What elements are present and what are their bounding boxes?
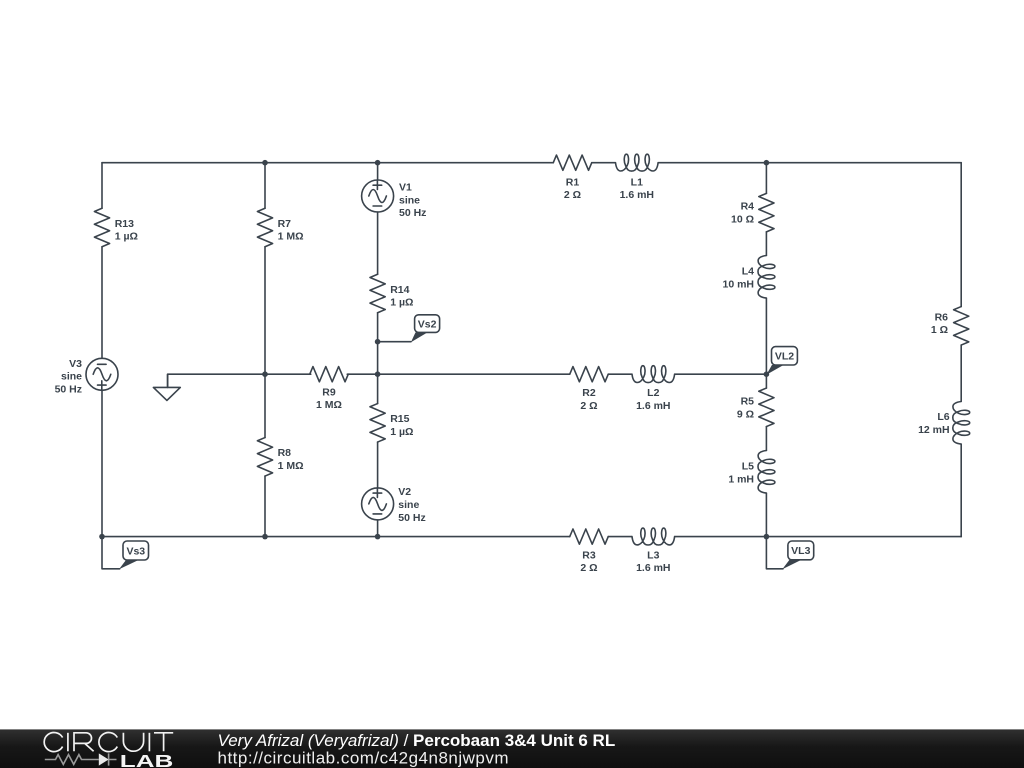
svg-text:1 µΩ: 1 µΩ	[115, 231, 138, 243]
svg-text:L6: L6	[937, 411, 949, 423]
wire left column upper (top rail to R13)	[101, 163, 103, 209]
resistor R6	[931, 307, 969, 346]
svg-text:R7: R7	[278, 218, 292, 230]
svg-text:R1: R1	[566, 176, 580, 188]
resistor R5	[737, 388, 774, 427]
wire bottom rail right (L3 to bottom-right corner)	[675, 536, 961, 538]
junction node dot 6	[764, 371, 770, 377]
wire right column middle (R6 to L6)	[960, 345, 962, 401]
wire column-4 L5 to bottom rail	[765, 494, 767, 537]
junction node dot 4	[262, 371, 268, 377]
svg-text:V3: V3	[69, 358, 82, 370]
wire column-2 upper (top rail to R7)	[264, 163, 266, 209]
resistor R9	[310, 367, 349, 412]
svg-text:50 Hz: 50 Hz	[399, 207, 426, 219]
svg-text:R13: R13	[115, 218, 134, 230]
wire left column lower (V3 to bottom rail)	[101, 390, 103, 536]
wire column-3 R14 to mid rail	[377, 313, 379, 374]
wire column-3 R15 to V2	[377, 442, 379, 488]
wire top rail between R1 and L1	[592, 162, 615, 164]
CircuitLab logo resistor-diode art	[45, 753, 117, 765]
wire left column middle (R13 to V3)	[101, 247, 103, 359]
voltage source V1	[362, 180, 427, 219]
svg-text:50 Hz: 50 Hz	[398, 512, 425, 524]
wire right column upper (top corner to R6)	[960, 163, 962, 307]
wire mid rail ground to R9	[168, 374, 311, 387]
svg-text:1 MΩ: 1 MΩ	[278, 460, 304, 472]
svg-text:R2: R2	[582, 387, 596, 399]
wire column-4 top rail to R4	[765, 163, 767, 194]
wire mid rail between R2 and L2	[608, 373, 631, 375]
junction node dot 7	[375, 339, 381, 345]
wire bottom rail left (to R3)	[102, 536, 570, 538]
wire bottom rail between R3 and L3	[608, 536, 631, 538]
svg-text:1 mH: 1 mH	[728, 474, 754, 486]
svg-text:R5: R5	[741, 396, 755, 408]
inductor L3	[632, 528, 675, 574]
svg-text:sine: sine	[399, 194, 420, 206]
svg-text:V1: V1	[399, 182, 412, 194]
svg-text:50 Hz: 50 Hz	[55, 384, 82, 396]
svg-text:Vs2: Vs2	[418, 318, 437, 330]
svg-text:10 mH: 10 mH	[722, 279, 754, 291]
svg-text:2 Ω: 2 Ω	[580, 400, 597, 412]
svg-text:L2: L2	[647, 387, 659, 399]
svg-text:2 Ω: 2 Ω	[580, 562, 597, 574]
wire column-2 lower (R8 to bottom rail)	[264, 476, 266, 537]
wire top rail right (L1 to top-right corner)	[659, 162, 962, 164]
junction node dot 8	[99, 534, 105, 540]
resistor R15	[370, 404, 413, 443]
svg-text:LAB: LAB	[120, 751, 174, 768]
wire column-4 R4 to L4	[765, 232, 767, 255]
svg-text:VL2: VL2	[775, 351, 794, 363]
junction node dot 1	[262, 160, 268, 166]
resistor R14	[370, 274, 413, 313]
svg-text:9 Ω: 9 Ω	[737, 408, 754, 420]
svg-text:V2: V2	[398, 486, 411, 498]
resistor R4	[731, 193, 774, 232]
svg-text:L4: L4	[742, 266, 754, 278]
resistor R7	[257, 208, 303, 247]
svg-text:1.6 mH: 1.6 mH	[636, 400, 670, 412]
wire top rail left (corner to R1)	[102, 162, 553, 164]
svg-text:sine: sine	[398, 499, 419, 511]
footer bar	[0, 729, 1024, 768]
svg-text:1 MΩ: 1 MΩ	[278, 231, 304, 243]
svg-text:L5: L5	[742, 461, 754, 473]
ground	[153, 374, 180, 400]
wire column-4 R5 to L5	[765, 427, 767, 451]
junction node dot 5	[375, 371, 381, 377]
resistor R13	[94, 208, 138, 247]
voltage source V3	[55, 358, 118, 396]
svg-text:R3: R3	[582, 549, 596, 561]
wire column-3 V2 to bottom rail	[377, 520, 379, 537]
wire column-4 mid rail to R5	[765, 374, 767, 388]
inductor L2	[632, 366, 675, 412]
svg-text:http://circuitlab.com/c42g4n8n: http://circuitlab.com/c42g4n8njwpvm	[218, 748, 510, 767]
junction node dot 11	[764, 534, 770, 540]
svg-text:R9: R9	[322, 386, 336, 398]
svg-text:1.6 mH: 1.6 mH	[636, 562, 670, 574]
wire column-3 V1 to R14	[377, 212, 379, 274]
wire mid rail L2 to column-4	[675, 373, 766, 375]
svg-text:Vs3: Vs3	[126, 545, 145, 557]
junction node dot 9	[262, 534, 268, 540]
wire right column lower (L6 to bottom corner)	[960, 445, 962, 537]
junction node dot 10	[375, 534, 381, 540]
svg-text:R4: R4	[741, 201, 755, 213]
svg-text:2 Ω: 2 Ω	[564, 189, 581, 201]
footer url text	[218, 748, 510, 767]
node VL2 flag	[766, 347, 797, 375]
junction node dot 3	[764, 160, 770, 166]
resistor R2	[570, 367, 609, 412]
svg-text:VL3: VL3	[791, 545, 810, 557]
svg-text:L3: L3	[647, 549, 659, 561]
wire column-3 V1 top lead	[377, 163, 379, 180]
CircuitLab logo CIRCUIT wordmark	[44, 732, 173, 751]
svg-text:L1: L1	[631, 176, 643, 188]
wire column-3 mid rail to R15	[377, 374, 379, 403]
svg-text:10 Ω: 10 Ω	[731, 213, 754, 225]
svg-text:R8: R8	[278, 447, 292, 459]
svg-text:R6: R6	[935, 311, 949, 323]
svg-text:12 mH: 12 mH	[918, 424, 950, 436]
resistor R8	[257, 438, 303, 477]
voltage source V2	[362, 486, 426, 524]
wire column-4 L4 to mid rail	[765, 299, 767, 375]
CircuitLab logo LAB wordmark	[120, 751, 174, 768]
node Vs3 flag	[102, 537, 149, 570]
svg-text:1 Ω: 1 Ω	[931, 324, 948, 336]
node Vs2 flag	[378, 315, 440, 343]
wire column-2 middle (R7 to R8)	[264, 247, 266, 438]
footer title text	[218, 731, 616, 750]
inductor L1	[616, 154, 659, 201]
inductor L6	[918, 402, 970, 445]
svg-text:Very Afrizal (Veryafrizal) / P: Very Afrizal (Veryafrizal) / Percobaan 3…	[218, 731, 616, 750]
svg-text:R14: R14	[390, 284, 409, 296]
svg-text:R15: R15	[390, 413, 409, 425]
resistor R1	[553, 155, 592, 201]
junction node dot 2	[375, 160, 381, 166]
svg-text:1.6 mH: 1.6 mH	[620, 189, 654, 201]
wire mid rail R9 to R2	[347, 373, 569, 375]
inductor L5	[728, 451, 775, 494]
resistor R3	[570, 529, 609, 574]
node VL3 flag	[766, 537, 813, 570]
svg-text:1 µΩ: 1 µΩ	[390, 297, 413, 309]
svg-text:1 MΩ: 1 MΩ	[316, 399, 342, 411]
svg-text:1 µΩ: 1 µΩ	[390, 426, 413, 438]
svg-text:sine: sine	[61, 371, 82, 383]
inductor L4	[722, 255, 774, 298]
